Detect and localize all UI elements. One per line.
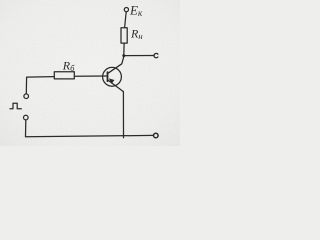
terminal input top [24,94,29,99]
transistor Q1 [103,67,124,91]
wire input to Rb [26,77,54,94]
wire node K to output terminal [125,55,154,57]
terminal output (collector) [154,53,158,57]
wire base lead [74,75,106,77]
pulse symbol [10,103,21,109]
wire collector lead [108,57,124,74]
wire Rn to node K [123,43,125,55]
terminal bottom right [154,133,159,138]
wire emitter to bottom rail [122,92,124,138]
resistor Rb [54,72,74,79]
terminal input bottom [24,115,29,120]
bottom rail wire [26,135,154,136]
resistor Rn [121,28,127,43]
wire Ek to Rn [125,12,127,28]
node K (collector junction) [122,54,125,57]
terminal Ek (supply, top) [124,8,128,12]
wire input bottom to rail [25,120,27,137]
